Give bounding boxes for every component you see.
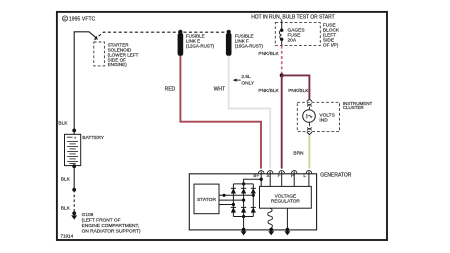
- 2.5L ONLY callout arrow: [233, 74, 255, 86]
- svg-text:F: F: [278, 173, 281, 178]
- wire BRN from cluster to generator L: [308, 135, 310, 168]
- terminal B+ internal wiring: [242, 171, 263, 186]
- arrowhead into starter solenoid: [94, 36, 98, 40]
- svg-text:WHT: WHT: [214, 86, 225, 92]
- bridge ground lead: [242, 215, 245, 230]
- svg-text:+: +: [74, 135, 77, 140]
- label PNK/BLK left: [258, 88, 279, 94]
- svg-text:BLK: BLK: [61, 177, 71, 183]
- instrument cluster dashed box: [297, 102, 339, 131]
- svg-text:C: C: [64, 16, 67, 21]
- ground regulator: [284, 228, 290, 236]
- gages fuse label: [288, 27, 305, 43]
- label BLK lower: [61, 206, 71, 212]
- label PNK/BLK right: [288, 88, 309, 94]
- svg-text:STATOR: STATOR: [197, 197, 216, 203]
- wire dashed run from solenoid to fusible links: [95, 32, 229, 40]
- svg-text:BLK: BLK: [58, 121, 68, 127]
- svg-text:G108: G108: [82, 212, 94, 218]
- instrument cluster label: [343, 101, 373, 110]
- fuse block dashed box: [275, 23, 320, 46]
- fusible link F label: [235, 34, 264, 49]
- wire battery feed (left vertical + top run to solenoid): [74, 32, 96, 131]
- svg-text:RED: RED: [165, 86, 176, 92]
- regulator ground lead: [286, 208, 288, 229]
- svg-text:S: S: [266, 173, 269, 178]
- fuse feed stub: [281, 19, 283, 30]
- connector at instrument cluster top: [307, 99, 312, 110]
- svg-text:20A: 20A: [288, 37, 297, 43]
- svg-text:CLUSTER: CLUSTER: [343, 105, 365, 110]
- ground coil: [268, 228, 274, 236]
- volts ind label: [319, 112, 334, 123]
- ground bridge: [241, 228, 247, 236]
- svg-text:P: P: [291, 173, 294, 178]
- label BLK middle: [61, 177, 71, 183]
- terminal labels: [253, 173, 306, 178]
- terminal S lead: [269, 171, 271, 186]
- gages fuse 20A: [279, 29, 283, 46]
- node ground junction lower: [72, 211, 76, 215]
- svg-text:GENERATOR: GENERATOR: [320, 172, 352, 178]
- label RED: [165, 86, 176, 92]
- node battery negative: [72, 164, 76, 168]
- diode D3: [251, 188, 256, 193]
- svg-text:BLK: BLK: [61, 206, 71, 212]
- copyright 1995 VFTC: [62, 16, 95, 22]
- wire PNK/BLK to instrument cluster: [282, 75, 310, 98]
- fusible link F: [226, 30, 232, 56]
- wire BLK dashed to ground: [73, 190, 75, 214]
- terminal L lead: [308, 171, 310, 186]
- svg-text:VOLTS: VOLTS: [319, 112, 334, 118]
- label BRN: [293, 150, 304, 156]
- connector at instrument cluster bottom: [307, 122, 312, 134]
- svg-text:ONLY: ONLY: [241, 81, 255, 87]
- diode D2: [241, 188, 246, 193]
- stator phase wires: [219, 194, 255, 206]
- terminal P lead: [293, 171, 295, 186]
- wire BLK battery to junction: [73, 166, 75, 190]
- ground G108: [71, 213, 77, 219]
- voltage regulator U1: [260, 186, 312, 208]
- battery label: [82, 135, 104, 141]
- svg-text:PNK/BLK: PNK/BLK: [258, 88, 279, 94]
- junction node pnk/blk: [280, 73, 284, 77]
- svg-text:BATTERY: BATTERY: [82, 135, 104, 141]
- volts indicator: [303, 110, 316, 123]
- battery: [65, 130, 81, 165]
- svg-text:REGULATOR: REGULATOR: [271, 198, 300, 203]
- svg-text:PNK/BLK: PNK/BLK: [288, 88, 309, 94]
- starter solenoid dashed box: [94, 42, 105, 66]
- terminal F lead: [281, 171, 283, 186]
- svg-text:IND: IND: [319, 118, 328, 124]
- fusible link E: [178, 30, 184, 56]
- svg-text:71914: 71914: [60, 234, 73, 239]
- diode D4: [231, 207, 236, 212]
- node ground junction upper: [72, 188, 76, 192]
- svg-text:OF I/P): OF I/P): [323, 42, 339, 48]
- svg-text:ENGINE): ENGINE): [108, 62, 128, 67]
- svg-text:2.5L: 2.5L: [241, 74, 251, 80]
- field coil L1: [268, 208, 273, 228]
- wire PNK/BLK to generator F: [281, 75, 283, 168]
- svg-text:PNK/BLK: PNK/BLK: [258, 51, 279, 57]
- label PNK/BLK upper: [258, 51, 279, 57]
- terminal connector arcs B+ S F P L: [258, 171, 311, 174]
- stator: [194, 184, 219, 214]
- rectifier bridge rails and legs: [233, 184, 253, 217]
- label WHT: [214, 86, 225, 92]
- svg-text:ENGINE COMPARTMENT,: ENGINE COMPARTMENT,: [82, 223, 140, 229]
- svg-text:HOT IN RUN, BULB TEST OR START: HOT IN RUN, BULB TEST OR START: [251, 14, 335, 20]
- diode D6: [251, 207, 256, 212]
- starter solenoid label: [108, 43, 139, 68]
- header HOT IN RUN, BULB TEST OR START: [251, 14, 335, 20]
- svg-text:(16GA-RUST): (16GA-RUST): [235, 43, 264, 48]
- diode D5: [241, 207, 246, 212]
- node battery positive: [72, 129, 76, 133]
- label BLK upper: [58, 121, 68, 127]
- wire RED from fusible link E to generator B+: [180, 56, 261, 169]
- wire PNK/BLK dashed from gages fuse: [281, 46, 283, 74]
- fuse block label: [323, 23, 340, 49]
- ground G108 label: [82, 212, 141, 234]
- svg-text:(LEFT FRONT OF: (LEFT FRONT OF: [82, 218, 121, 224]
- generator box: [189, 174, 316, 230]
- generator label: [320, 172, 352, 178]
- svg-text:B+: B+: [253, 173, 259, 178]
- diode D1: [231, 188, 236, 193]
- svg-text:(12GA-RUST): (12GA-RUST): [186, 43, 215, 48]
- border frame: [57, 12, 387, 240]
- svg-text:L: L: [303, 173, 306, 178]
- fusible link E label: [186, 34, 215, 49]
- wire WHT from fusible link F to generator S: [229, 56, 271, 169]
- svg-text:1995 VFTC: 1995 VFTC: [69, 16, 96, 22]
- svg-text:ON RADIATOR SUPPORT): ON RADIATOR SUPPORT): [82, 228, 141, 234]
- svg-text:BRN: BRN: [293, 150, 304, 156]
- diagram number 71914: [60, 234, 73, 239]
